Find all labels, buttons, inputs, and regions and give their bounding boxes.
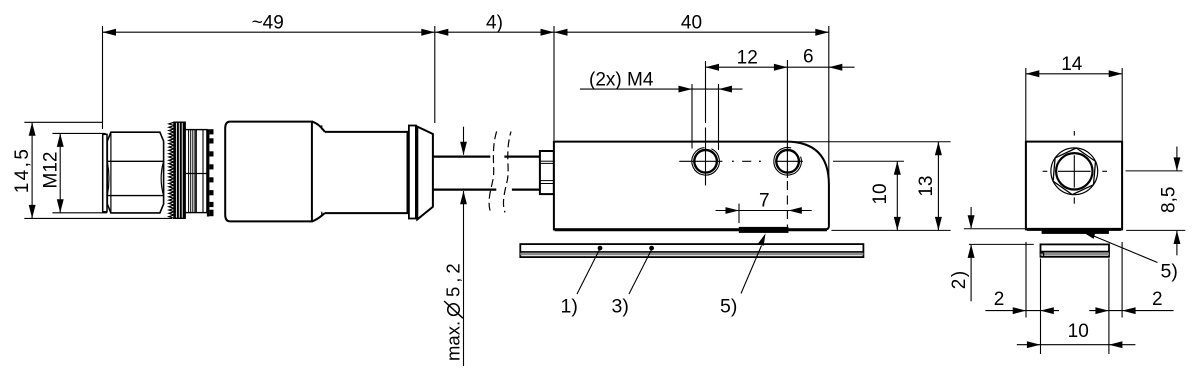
svg-text:4): 4): [486, 12, 503, 33]
sensor body bottom heavy edge: [555, 228, 828, 231]
svg-text:5): 5): [1161, 261, 1178, 283]
dimension 2 bottom right: [1089, 310, 1173, 312]
leader to label 3: [629, 250, 652, 295]
svg-text:14,5: 14,5: [12, 147, 33, 194]
svg-text:(2x) M4: (2x) M4: [589, 69, 654, 90]
svg-text:M12: M12: [41, 152, 62, 189]
svg-text:~49: ~49: [252, 13, 284, 34]
sensor body outline: [554, 142, 829, 230]
end view centerline dashes: [1043, 170, 1048, 172]
dimension 2) air gap: [970, 207, 972, 228]
dimension 7 extension tick: [738, 204, 740, 224]
hole 1 horizontal centerline: [679, 160, 722, 162]
svg-text:8,5: 8,5: [1159, 187, 1180, 213]
connector rear sleeve: [185, 130, 207, 213]
dimension ~49 4) 40 chain line: [103, 31, 829, 33]
svg-text:40: 40: [681, 12, 702, 33]
knurled ring sawtooth edge: [169, 122, 174, 218]
cable upper line right: [504, 156, 540, 158]
sensing element hexagon: [1053, 148, 1095, 195]
dimension 14,5 line: [31, 122, 33, 218]
active surface black bar side view: [739, 227, 789, 233]
hole 1 thread arc: [692, 148, 720, 176]
2) extension bottom: [969, 243, 1034, 245]
dimension 13 line: [937, 142, 939, 231]
8,5 extension line bottom: [1126, 229, 1185, 231]
boot end rings: [409, 126, 416, 219]
M4 hole edge tick left: [691, 84, 693, 149]
svg-text:5): 5): [720, 296, 737, 318]
dimension 14 line: [1026, 73, 1122, 75]
centerline between holes: [742, 160, 751, 162]
extension line hole1 center: [705, 61, 707, 123]
measuring tape end view: [1041, 244, 1110, 256]
measuring tape side view: [520, 244, 863, 257]
active surface black bar end view: [1042, 230, 1109, 234]
cable break curve 1: [489, 131, 497, 212]
body-boot taper: [312, 122, 325, 132]
hole 2 thread arc: [774, 148, 802, 176]
cable exit tail: [417, 127, 433, 220]
svg-text:2: 2: [1152, 289, 1163, 310]
sensing element crosshair: [1058, 170, 1091, 172]
dimension 8,5: [1176, 147, 1178, 171]
dimension text max. dia 5,2: [443, 259, 464, 361]
svg-text:12: 12: [737, 47, 758, 68]
8,5 extension line top: [1126, 170, 1183, 172]
extension line sensor left: [553, 26, 555, 140]
extension line body bottom right: [831, 229, 950, 231]
2) extension top: [964, 228, 1025, 230]
svg-text:1): 1): [561, 296, 578, 318]
hole2 centerline dashed lower: [786, 181, 788, 230]
dimension 12 and 6 line: [706, 66, 855, 68]
connector boot cylinder: [325, 132, 408, 213]
dimension max dia 5,2 line: [463, 127, 465, 155]
svg-text:max.: max.: [443, 321, 464, 361]
dimension M12 line: [59, 133, 61, 212]
end view square body: [1026, 142, 1122, 230]
dimension 10 line: [896, 161, 898, 230]
leader to label 1: [577, 250, 600, 295]
hole 2 horizontal centerline: [775, 160, 803, 162]
leader to label 5 side view: [741, 246, 762, 294]
svg-text:10: 10: [870, 183, 891, 204]
svg-text:2: 2: [994, 289, 1005, 310]
tape reference dot 2: [649, 246, 654, 251]
M12 extension bottom: [52, 212, 107, 214]
cable upper line left: [433, 156, 490, 158]
extension line sensor right: [828, 26, 830, 179]
14,5 extension bottom: [24, 217, 172, 219]
connector hex body: [107, 132, 163, 213]
connector main body: [225, 122, 312, 222]
extension line left of connector: [102, 26, 104, 129]
dimension 7 line: [716, 210, 812, 212]
svg-text:3): 3): [612, 296, 629, 318]
extension line hole2 center: [786, 60, 788, 178]
end view bottom heavy edge: [1027, 228, 1121, 231]
extension lines below end view: [1025, 242, 1027, 318]
extension line connector end: [434, 26, 436, 123]
svg-text:7: 7: [759, 190, 770, 211]
M12 extension top: [52, 132, 105, 134]
mounting hole 1: [694, 150, 717, 173]
svg-text:5,2: 5,2: [443, 259, 464, 297]
svg-text:10: 10: [1068, 321, 1089, 342]
14 extension right: [1121, 68, 1123, 141]
dimension 10 bottom: [1017, 344, 1136, 346]
svg-text:2): 2): [949, 269, 970, 289]
sensing element outer circle: [1051, 148, 1098, 195]
connector thread front: [103, 134, 107, 212]
sensor cable gland: [540, 151, 554, 194]
leader to label 5 end view: [1081, 231, 1096, 239]
M4 leader line: [580, 88, 743, 90]
dimension 2 bottom left: [985, 310, 1059, 312]
mounting hole 2: [776, 150, 799, 173]
cable lower line left: [433, 189, 496, 191]
svg-text:14: 14: [1061, 54, 1083, 75]
tape reference dot 1: [598, 246, 603, 251]
svg-text:13: 13: [916, 176, 937, 197]
svg-text:6: 6: [803, 47, 814, 68]
M4 hole edge tick right: [718, 84, 720, 150]
sensing element inner circle: [1056, 153, 1092, 189]
strain relief teeth: [207, 129, 210, 216]
14 extension left: [1025, 68, 1027, 141]
extension line body top right: [786, 141, 951, 143]
14,5 extension top: [24, 121, 103, 123]
knurled ring ribbed band: [174, 122, 185, 218]
hole centerline extension right: [833, 160, 904, 162]
cable lower line right: [512, 189, 540, 191]
cable break curve 2: [503, 132, 511, 213]
